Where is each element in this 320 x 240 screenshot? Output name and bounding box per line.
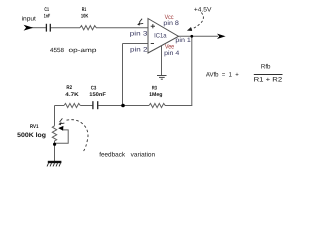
wire down to RV1 bbox=[54, 106, 56, 126]
wire pin4 down bbox=[161, 46, 163, 76]
svg-text:R1 + R2: R1 + R2 bbox=[254, 76, 283, 83]
wire C3 to node A bbox=[98, 105, 149, 107]
svg-text:4.7K: 4.7K bbox=[65, 92, 79, 98]
svg-text:op-amp: op-amp bbox=[69, 48, 98, 54]
op-amp plus sign bbox=[151, 24, 155, 28]
op-amp minus sign bbox=[151, 43, 154, 45]
wire R3 to fb corner bbox=[165, 105, 192, 107]
svg-text:pin 1: pin 1 bbox=[175, 37, 191, 44]
svg-text:+4.5V: +4.5V bbox=[194, 6, 212, 13]
node A junction bbox=[121, 104, 125, 108]
wire output down bbox=[191, 36, 193, 105]
svg-text:pin 2: pin 2 bbox=[130, 47, 148, 54]
node RV1 bottom junction bbox=[53, 143, 56, 146]
resistor R3 bbox=[149, 103, 165, 107]
svg-text:4558: 4558 bbox=[50, 47, 65, 54]
potentiometer RV1 body bbox=[52, 126, 56, 144]
svg-text:RV1: RV1 bbox=[30, 124, 39, 130]
input arrow bbox=[25, 25, 32, 30]
svg-text:R2: R2 bbox=[66, 85, 72, 91]
capacitor C3 bbox=[93, 101, 98, 109]
wire R1 to pin3 bbox=[96, 27, 148, 29]
svg-text:1nF: 1nF bbox=[44, 14, 51, 20]
svg-text:150nF: 150nF bbox=[89, 92, 106, 98]
resistor R1 bbox=[80, 26, 96, 30]
wire input to C1 bbox=[31, 27, 46, 29]
svg-text:AVfb = 1 +: AVfb = 1 + bbox=[206, 71, 239, 78]
wire pin2 down to node A bbox=[122, 44, 124, 106]
svg-text:500K log: 500K log bbox=[17, 132, 46, 139]
RV1 wiper return wire bbox=[55, 130, 68, 143]
svg-text:C3: C3 bbox=[91, 85, 97, 91]
svg-text:C1: C1 bbox=[44, 7, 49, 13]
wire output bbox=[179, 35, 219, 37]
ground RV1 earth bbox=[47, 162, 61, 166]
svg-text:1Meg: 1Meg bbox=[149, 92, 162, 98]
svg-text:R1: R1 bbox=[82, 7, 87, 13]
svg-text:pin 3: pin 3 bbox=[130, 31, 148, 38]
node junction output bbox=[190, 35, 193, 38]
svg-text:variation: variation bbox=[131, 151, 156, 158]
wire R2 to C3 bbox=[80, 105, 92, 107]
wire C1 to R1 bbox=[51, 27, 81, 29]
svg-text:Rfb: Rfb bbox=[261, 64, 271, 71]
variable pointer at RV1 bbox=[60, 118, 65, 123]
svg-text:pin 4: pin 4 bbox=[164, 50, 180, 57]
wire RV1 to ground bbox=[54, 144, 56, 161]
capacitor C1 bbox=[46, 24, 50, 32]
resistor R2 bbox=[64, 103, 80, 107]
variable pointer at op-amp bbox=[139, 19, 144, 24]
ground op-amp Vee bbox=[157, 76, 167, 80]
wire pin2 bbox=[123, 43, 149, 45]
dashed arrow 4.5V to Vcc bbox=[191, 13, 203, 30]
svg-text:feedback: feedback bbox=[99, 151, 126, 158]
svg-text:R3: R3 bbox=[152, 85, 157, 91]
svg-text:pin 8: pin 8 bbox=[163, 20, 179, 27]
formula fraction bar bbox=[254, 74, 283, 76]
output arrow bbox=[218, 34, 225, 38]
wire fb left segment bbox=[55, 105, 65, 107]
svg-text:input: input bbox=[22, 15, 37, 22]
dashed curve feedback variation bbox=[67, 120, 88, 151]
svg-text:IC1a: IC1a bbox=[154, 32, 167, 39]
svg-text:10K: 10K bbox=[81, 13, 89, 19]
op-amp U1 triangle bbox=[148, 19, 179, 54]
RV1 wiper arrow bbox=[58, 126, 63, 131]
